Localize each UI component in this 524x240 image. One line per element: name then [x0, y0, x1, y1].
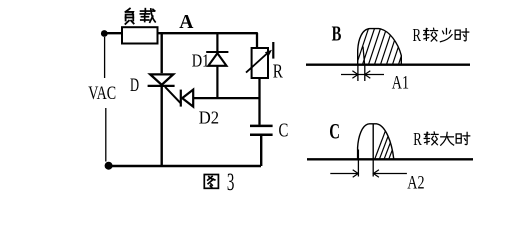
- svg-text:B: B: [332, 22, 342, 45]
- wire SCR gate diagonal: [165, 87, 181, 104]
- diode D1: [206, 52, 228, 66]
- svg-text:D: D: [130, 75, 139, 95]
- resistor R (variable): [252, 48, 268, 78]
- wire D1 branch bottom: [216, 66, 218, 98]
- wire SCR branch bottom: [160, 86, 162, 166]
- svg-text:VAC: VAC: [88, 82, 116, 104]
- svg-text:C: C: [329, 120, 340, 145]
- thyristor D (SCR): [148, 74, 175, 86]
- svg-text:R: R: [413, 130, 422, 150]
- wire C bottom: [260, 136, 262, 166]
- waveform B hatching: [356, 27, 411, 66]
- waveform B baseline: [306, 64, 470, 66]
- terminal bar of R wiper: [272, 42, 274, 59]
- svg-text:A1: A1: [392, 72, 409, 93]
- arrow of variable resistor R: [246, 52, 269, 72]
- waveform B pulse outline: [358, 29, 402, 65]
- wire bottom horizontal: [108, 165, 261, 168]
- svg-text:C: C: [279, 118, 289, 141]
- svg-text:R: R: [413, 26, 422, 46]
- label 图 3: [204, 175, 218, 189]
- dimension ticks C: [358, 150, 373, 177]
- wire D1 branch top: [216, 33, 218, 51]
- waveform C firing line: [372, 124, 374, 159]
- wire R bottom to C: [258, 78, 260, 125]
- waveform C pulse outline: [358, 124, 394, 159]
- svg-text:D1: D1: [192, 50, 210, 71]
- waveform C hatching: [374, 128, 405, 161]
- waveform B firing line: [363, 47, 365, 65]
- dimension ticks B: [358, 66, 365, 82]
- label 负载: [125, 9, 133, 24]
- capacitor C: [250, 125, 273, 128]
- waveform C baseline: [307, 158, 473, 160]
- wire gate horizontal: [193, 97, 259, 99]
- node: bottom-left terminal dot: [105, 162, 113, 170]
- diode D2: [181, 90, 193, 107]
- wire top horizontal: [104, 32, 258, 34]
- svg-text:A: A: [179, 11, 194, 33]
- svg-text:R: R: [273, 59, 283, 81]
- dimension line C with arrows: [330, 173, 358, 175]
- wire SCR branch top: [160, 33, 162, 73]
- resistor 负载 (load) box: [122, 27, 158, 43]
- svg-text:D2: D2: [199, 108, 219, 127]
- svg-text:3: 3: [227, 169, 235, 196]
- wire VAC lead (left vertical): [105, 37, 106, 162]
- wire R branch from node A: [256, 33, 258, 48]
- svg-text:A2: A2: [407, 172, 424, 193]
- dimension line B with arrows: [341, 74, 384, 76]
- node: top-left terminal dot: [101, 30, 108, 37]
